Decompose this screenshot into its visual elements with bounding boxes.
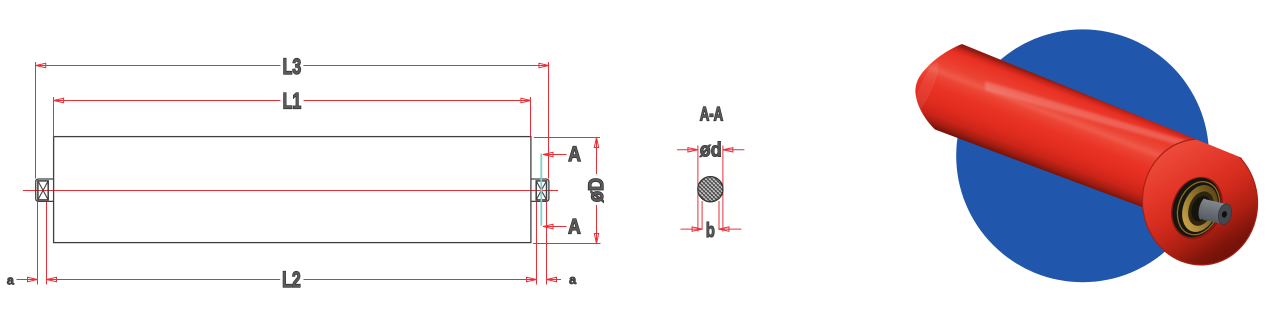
- svg-text:ød: ød: [700, 140, 722, 162]
- svg-text:A: A: [568, 143, 581, 166]
- svg-text:øD: øD: [585, 178, 608, 202]
- svg-text:b: b: [706, 219, 715, 242]
- svg-text:A: A: [568, 215, 581, 238]
- svg-text:a: a: [7, 273, 15, 288]
- svg-text:L3: L3: [283, 54, 302, 79]
- svg-text:L1: L1: [283, 88, 302, 113]
- svg-text:a: a: [569, 272, 577, 287]
- svg-text:L2: L2: [282, 267, 301, 292]
- svg-text:A-A: A-A: [700, 105, 724, 126]
